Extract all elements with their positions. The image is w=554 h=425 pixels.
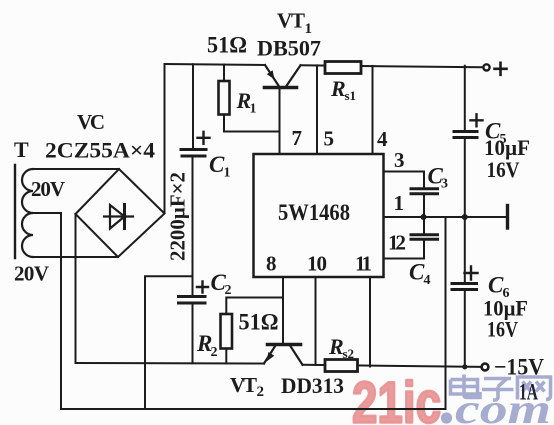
svg-text:1: 1	[394, 191, 405, 215]
wire top +V rail	[165, 64, 482, 67]
watermark 21ic logo	[352, 371, 441, 425]
resistor Rs2	[325, 360, 358, 372]
capacitor C6	[452, 284, 477, 290]
wire bridge minus output down	[75, 214, 77, 363]
transformer T secondary winding	[22, 169, 33, 257]
wire ground rail pin1	[384, 216, 507, 218]
plus sign C1	[198, 132, 210, 144]
wire secondary bottom to bridge AC bottom	[33, 256, 118, 258]
capacitor C2	[179, 297, 206, 304]
capacitor C3	[411, 189, 438, 194]
wire R1 stub	[223, 65, 225, 82]
电	[451, 375, 481, 398]
wire C3 to ground rail	[423, 194, 425, 217]
wire C2 bottom to -V rail	[192, 303, 194, 363]
svg-text:DB507: DB507	[257, 36, 321, 61]
ground bottom wire	[61, 408, 446, 410]
svg-text:3: 3	[441, 177, 448, 192]
capacitor C4	[411, 235, 438, 239]
junction node C6	[462, 364, 467, 369]
wire bridge plus output up to top rail	[164, 64, 166, 212]
plus sign C5	[471, 114, 483, 126]
svg-text:2: 2	[257, 384, 265, 400]
svg-text:VC: VC	[77, 110, 105, 134]
wire C4 to pin12	[384, 239, 425, 258]
wire VT2 collector to -15V terminal	[303, 365, 482, 367]
svg-text:2CZ55A×4: 2CZ55A×4	[45, 138, 155, 163]
svg-text:7: 7	[292, 126, 303, 150]
svg-text:16V: 16V	[487, 317, 518, 342]
svg-text:DD313: DD313	[281, 373, 344, 398]
transistor VT1	[265, 65, 301, 88]
svg-text:21ic: 21ic	[352, 371, 441, 425]
terminal -15V output	[482, 364, 489, 371]
wire ground tap stub	[145, 276, 193, 409]
svg-text:10: 10	[307, 252, 327, 276]
svg-text:R: R	[328, 334, 344, 359]
svg-text:2: 2	[211, 345, 218, 360]
svg-text:VT: VT	[277, 9, 305, 33]
bridge rectifier VC diamond	[76, 169, 165, 257]
plus sign C2	[197, 282, 208, 293]
子	[482, 379, 514, 401]
svg-text:s1: s1	[345, 88, 357, 103]
wire pin4	[372, 66, 374, 154]
svg-text:VT: VT	[230, 373, 257, 397]
网	[518, 377, 551, 400]
svg-text:1: 1	[224, 166, 231, 181]
resistor Rs1	[325, 62, 361, 74]
svg-text:2: 2	[225, 283, 232, 298]
svg-text:R: R	[330, 76, 346, 101]
wire C1 to C2 (ground column)	[192, 156, 194, 295]
svg-text:20V: 20V	[14, 262, 49, 286]
resistor R2	[221, 314, 233, 349]
svg-text:−15V: −15V	[494, 355, 544, 380]
schematic ink	[15, 62, 508, 410]
plus sign C6	[465, 267, 478, 280]
watermark .com	[441, 387, 551, 425]
svg-text:16V: 16V	[487, 157, 520, 182]
svg-text:T: T	[14, 137, 29, 162]
svg-text:s2: s2	[343, 346, 355, 361]
wire C5 to ground rail	[464, 138, 466, 218]
wire VT1 base to pin7	[279, 88, 281, 155]
svg-text:1: 1	[250, 102, 257, 117]
svg-text:2200µF×2: 2200µF×2	[166, 172, 190, 261]
transistor VT2	[264, 345, 303, 365]
svg-text:51Ω: 51Ω	[239, 310, 279, 335]
svg-text:5W1468: 5W1468	[278, 200, 350, 225]
wire R2 top to base line	[226, 298, 283, 315]
wire -V rail to VT2 emitter	[76, 362, 265, 365]
capacitor C1	[181, 150, 206, 157]
svg-text:51Ω: 51Ω	[207, 33, 247, 58]
resistor R1	[219, 81, 230, 115]
wire VT2 base to pin8	[282, 277, 284, 345]
svg-text:1A: 1A	[519, 380, 538, 405]
wire pin10	[315, 277, 317, 365]
ground symbol	[506, 206, 509, 229]
wire C6 rail	[464, 217, 466, 282]
svg-text:11: 11	[355, 252, 372, 276]
junction node C3/C4	[421, 214, 427, 220]
capacitor C5	[454, 132, 477, 138]
bridge diode symbol	[104, 205, 133, 229]
plus sign output terminal	[495, 63, 507, 75]
transformer T primary bar	[14, 165, 16, 258]
svg-text:4: 4	[377, 127, 388, 151]
wire center tap	[32, 213, 61, 409]
svg-text:5: 5	[324, 127, 335, 151]
wire C6 to -15V rail	[464, 290, 466, 367]
svg-text:4: 4	[424, 273, 431, 288]
junction node C5/C6	[462, 214, 468, 220]
wire C4 top stub	[423, 217, 425, 233]
svg-text:12: 12	[388, 231, 406, 255]
wire secondary top to bridge AC top	[33, 168, 119, 170]
watermark chinese chars 电子网	[451, 375, 551, 401]
wire R2 bottom stub	[225, 349, 227, 364]
IC U1 5W1468 box	[254, 154, 384, 277]
wire C5 rail	[464, 66, 466, 130]
wire R1 bottom to base	[224, 115, 280, 132]
svg-text:3: 3	[394, 148, 405, 172]
wire pin11	[369, 277, 371, 367]
wire C1 rail from top	[192, 64, 194, 147]
svg-text:8: 8	[266, 252, 277, 276]
wire pin3 to C3	[384, 172, 425, 188]
svg-text:20V: 20V	[31, 177, 65, 201]
wire ground drop to bottom	[445, 217, 447, 409]
wire pin5	[316, 65, 318, 154]
terminal + output	[483, 64, 489, 70]
